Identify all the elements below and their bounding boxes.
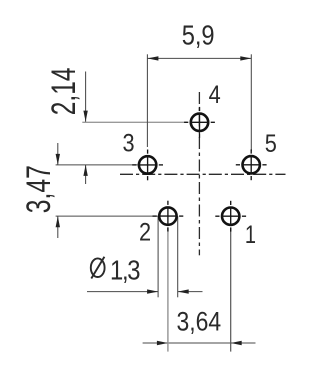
pin 2 [153, 201, 184, 232]
arrow diameter right [178, 289, 189, 293]
arrow 3,47 top [56, 154, 60, 165]
extension line pin4 row (gray) [82, 121, 187, 123]
dimension 3,47 [57, 143, 59, 238]
svg-text:5: 5 [265, 130, 277, 158]
svg-text:1,3: 1,3 [110, 254, 140, 286]
svg-text:3: 3 [123, 129, 135, 157]
pin 4 [184, 107, 215, 138]
svg-text:3,64: 3,64 [177, 307, 222, 337]
pin 5 [236, 149, 267, 180]
extension pin2 down (gray) [167, 228, 169, 352]
svg-text:3,47: 3,47 [20, 165, 58, 213]
arrow 2,14 bottom [83, 165, 87, 176]
extension line pin2 row [56, 215, 158, 217]
arrow 2,14 top [83, 111, 87, 122]
svg-text:2,14: 2,14 [45, 68, 83, 116]
svg-text:2: 2 [139, 218, 151, 246]
arrow 3,64 right [231, 341, 242, 345]
dimension 2,14 [85, 72, 87, 185]
centerline horizontal [120, 173, 286, 175]
arrow 3,47 bottom [56, 216, 60, 227]
svg-text:1: 1 [245, 221, 256, 249]
svg-text:4: 4 [209, 80, 221, 108]
svg-text:5,9: 5,9 [182, 21, 215, 51]
centerline vertical [198, 92, 200, 255]
arrow diameter left [147, 289, 158, 293]
arrow 5,9 left [147, 56, 158, 60]
pin 1 [215, 201, 246, 232]
arrow 5,9 right [240, 56, 251, 60]
pin 3 [132, 150, 163, 181]
extension pin1 down [230, 228, 232, 352]
dimension 5,9 [147, 54, 251, 151]
dimension 3,64 [143, 342, 256, 344]
dimension diameter 1,3 [87, 216, 203, 297]
label diameter 1,3 [91, 257, 105, 279]
arrow 3,64 left [157, 341, 168, 345]
extension line pin3 row [56, 164, 138, 166]
